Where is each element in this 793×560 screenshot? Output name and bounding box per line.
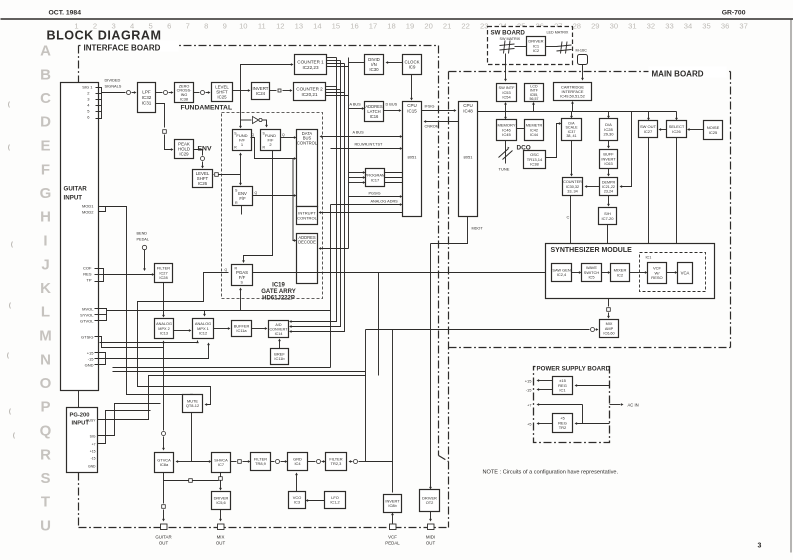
block PEAK HOLD IC29 [175,140,194,159]
wire counter2 bus stubs [326,86,337,88]
wire mix input long [366,329,590,331]
wire LPF branch to peak hold [156,104,165,128]
svg-text:MAIN BOARD: MAIN BOARD [652,70,704,79]
svg-text:P: P [40,399,50,416]
svg-text:ANALOG: ANALOG [156,322,172,326]
block ADDRES LATCH IC16 [365,102,384,122]
svg-text:38, 41: 38, 41 [566,134,576,138]
wire MOD to MUTE top [95,207,192,395]
wire driver to mix out [220,510,222,520]
wire sw matrix to sw intf [505,54,507,80]
svg-text:32: 32 [647,22,655,31]
bus line 1 [291,58,337,322]
wire +15 out [539,380,553,382]
svg-text:QT8-12: QT8-12 [186,403,199,408]
wire bref to a/d [279,341,281,349]
svg-text:O: O [40,375,52,392]
svg-text:DIVIDED: DIVIDED [105,78,121,83]
bus line 2 [291,61,341,327]
block LPF IC32 IC31 [138,83,156,113]
wire level shift ic26 output [213,174,214,176]
block VCF W/ RESO [648,263,667,284]
wire IFSIG cpu15 to cpu48 [422,110,455,112]
label MAIN BOARD [649,67,727,78]
svg-text:F: F [41,161,50,178]
svg-text:DEMPR: DEMPR [602,180,616,184]
wire gtsig to analog row [95,337,164,348]
svg-text:IC54: IC54 [502,95,511,100]
main board border [449,71,731,73]
wire vco to grd [296,475,298,492]
svg-text:R: R [235,201,238,205]
tune trimmer symbol [505,141,507,164]
block LEVEL SHFT IC26 [193,170,213,188]
svg-text:A/D: A/D [275,323,281,327]
svg-text:K: K [40,280,51,297]
wire analog adrs [331,204,401,206]
block FUND F/F 2 [261,130,281,151]
svg-text:IC6,60: IC6,60 [603,331,614,335]
svg-text:IC25: IC25 [217,95,227,100]
wire LPF to zero crossing [156,92,163,94]
block DRIVER IC5,6 [212,492,231,510]
wire program to cpu [385,172,403,174]
block DRIVER IC1 IC2 [527,37,546,56]
wire to gtvca [178,461,192,463]
svg-text:GND: GND [85,363,94,368]
svg-text:18: 18 [387,22,395,31]
connector guitar out [161,524,168,530]
svg-text:IC44: IC44 [530,133,538,137]
block GTVCA IC8a [155,453,174,473]
svg-text:AMP: AMP [605,327,614,331]
wire pgas q to mute [138,273,229,405]
svg-text:IC26: IC26 [672,129,681,134]
svg-text:17: 17 [369,22,377,31]
block LFO IC1,2 [325,492,346,509]
svg-text:3: 3 [111,22,115,31]
wire mid C [113,367,331,369]
svg-text:MIX: MIX [217,535,225,540]
svg-text:VCF: VCF [388,535,397,540]
svg-text:IC42: IC42 [530,128,538,132]
svg-text:COF: COF [83,266,92,271]
svg-text:IC11b: IC11b [274,356,285,361]
wire to inverter [241,119,252,121]
svg-text:IC21,22: IC21,22 [602,185,615,189]
wire to fund ff1 reset [240,155,242,175]
wire mvol bracket [95,309,107,321]
IC1 dashed box [640,253,706,292]
wire buff invert to dempr [608,169,610,175]
wire latch to cpu d bus [384,110,400,112]
wire mpx1 to buffer [214,328,229,330]
block MEMETR IC42 IC44 [525,120,544,141]
svg-text:OUT: OUT [216,541,226,546]
svg-text:21: 21 [443,22,451,31]
svg-text:TR2,3: TR2,3 [331,461,342,466]
sw matrix symbol [504,41,506,54]
svg-text:+7: +7 [527,404,531,408]
svg-text:A: A [40,43,51,60]
svg-text:6: 6 [167,22,171,31]
svg-text:R: R [40,446,51,463]
svg-text:COUNTER 1: COUNTER 1 [297,59,324,64]
svg-text:COUNTER 2: COUNTER 2 [296,86,323,91]
wire pgas set from analog row [240,290,242,311]
svg-text:HD61J222P: HD61J222P [262,296,295,302]
svg-text:IC38: IC38 [530,162,539,167]
wire down to gtvca [163,348,165,431]
wire +5 out [539,423,553,425]
block CPU IC48 [459,102,478,217]
svg-text:IC12: IC12 [199,331,207,336]
wire noise to select [689,129,704,131]
block FUND F/F 1 [233,130,252,151]
block +/-15 REG IC1 [553,377,573,395]
svg-text:IC30,32: IC30,32 [566,185,579,189]
svg-text:1: 1 [74,22,78,31]
wire select to vca [677,138,685,259]
block CLOCK IC9 [403,55,422,75]
interface board top border [79,45,439,47]
block VCO IC3 [289,492,306,509]
svg-text:5: 5 [148,22,152,31]
block SAW GEN IC2,4 [552,264,572,282]
svg-text:IC20,21: IC20,21 [301,92,317,97]
svg-text:MOD1: MOD1 [82,204,94,209]
svg-text:15: 15 [332,22,340,31]
svg-text:OUT: OUT [159,541,169,546]
wire driver to led matrix [546,46,557,48]
svg-text:+7: +7 [92,443,96,447]
wire +15 gnd bracket [95,353,106,365]
wire da to buff invert [608,141,610,147]
svg-text:CNROM: CNROM [425,125,439,129]
wire driver ot2 to midi out [430,512,432,520]
svg-text:+15: +15 [87,351,95,356]
block ADDRES DECODE [297,234,318,284]
wire interrupt control to cpu [320,212,403,214]
svg-text:IC49,50,51,52: IC49,50,51,52 [560,93,585,98]
svg-text:7: 7 [186,22,190,31]
svg-text:OT2: OT2 [426,500,434,505]
svg-text:RD,WR,INT,TST: RD,WR,INT,TST [355,143,384,147]
wire gtvca to guitar out [163,473,165,504]
svg-text:13: 13 [295,22,303,31]
svg-text:C: C [567,215,570,220]
svg-text:IC8b: IC8b [388,503,397,508]
svg-text:TR8,9: TR8,9 [255,461,266,466]
bus arrows up to interfaces [505,104,507,112]
svg-text:MOD2: MOD2 [82,210,94,215]
svg-text:SIGNALS: SIGNALS [105,84,122,89]
wire rd wr int tst [331,148,401,150]
block COUNTER 2 IC20,21 [294,83,326,101]
block LEVEL SHFT IC25 [212,83,233,102]
wire -15 row [95,345,209,359]
wire +7 out [539,404,583,406]
wire sw out to vcf [649,138,657,259]
synthesizer module box [546,244,715,299]
wire guitar box to pg200 [78,391,80,408]
svg-text:B: B [40,66,51,83]
svg-text:29,30: 29,30 [603,132,614,137]
block FILTER TR8,9 [251,453,271,471]
interface board right border [438,46,440,456]
block SW OUT IC27 [639,121,658,138]
svg-text:IC26: IC26 [198,181,208,186]
wire invert to pedal line [366,461,393,463]
bend pedal connector [142,245,146,249]
wire shvca to filter tr8,9 [231,461,237,463]
block MEMORY IC46 IC45 [497,120,517,141]
wire clock to cpu ic15 [411,75,413,99]
svg-text:DECODE: DECODE [298,240,316,245]
block SW INTF IC53 IC54 [497,84,517,102]
svg-text:PEDAL: PEDAL [137,238,149,242]
wire CNROM cpu48 to cpu15 [426,121,459,123]
svg-text:VCA: VCA [681,271,690,276]
svg-text:MVOL: MVOL [82,307,94,312]
wire bus to dempr [622,112,632,187]
svg-text:F/F: F/F [239,275,246,280]
svg-text:OCT. 1984: OCT. 1984 [49,10,82,17]
svg-text:F/F: F/F [239,196,246,201]
svg-text:D: D [40,114,51,131]
wire MOD2 bracket [95,207,106,212]
svg-text:PGSIG: PGSIG [369,192,381,196]
svg-text:M: M [39,328,52,345]
svg-text:IC2: IC2 [617,272,624,277]
wire dempr to counter [587,186,600,188]
wire mdot to midi driver [431,217,468,244]
wire divided signals to LPF [102,92,126,94]
svg-text:C: C [40,90,51,107]
svg-text:G: G [40,185,52,202]
svg-text:IC4: IC4 [294,461,301,466]
svg-text:+15: +15 [525,379,533,384]
wire grd to filter tr2,3 [308,461,316,463]
svg-text:ANALOG ADRS: ANALOG ADRS [371,200,399,204]
svg-text:2: 2 [93,22,97,31]
svg-text:IC1,2: IC1,2 [330,500,339,505]
wire to mpx2 bottom [163,343,165,348]
svg-text:SW MATRIX: SW MATRIX [500,37,521,41]
svg-text:AC IN: AC IN [628,403,639,408]
interface board left border lower [78,473,80,528]
wire counter to synth [570,196,572,260]
wire to env ff set [240,175,242,184]
wire osc to d/a scale [546,124,560,158]
svg-text:22: 22 [461,22,469,31]
svg-text:4: 4 [130,22,134,31]
svg-text:-15: -15 [91,457,96,461]
svg-text:IC28: IC28 [159,275,167,280]
block NOISE IC25 [704,121,723,140]
svg-text:INTERFACE BOARD: INTERFACE BOARD [84,44,161,53]
svg-text:CONTROL: CONTROL [297,140,318,145]
wire saw to wave [572,272,580,274]
svg-text:RESO: RESO [651,275,662,280]
svg-text:19: 19 [406,22,414,31]
wire synth to mix amp [608,299,610,307]
wire filter down to analog mpx2 [163,283,165,316]
svg-text:BEND: BEND [137,232,148,236]
svg-text:Q: Q [40,423,52,440]
wire s/h to mixer [608,225,620,260]
svg-text:MPX 2: MPX 2 [158,327,169,331]
block ZERO CROSSING IC38 [175,83,194,103]
svg-text:ENV: ENV [198,146,212,153]
svg-text:D BUS: D BUS [386,103,398,107]
block A/D CONVERT IC14 [269,321,289,338]
block BUFFER IC11a [232,321,252,337]
wire lfo to vco [308,500,325,502]
block GRD IC4 [288,453,308,471]
svg-text:SW BOARD: SW BOARD [491,30,526,37]
block PROGRAM IC17 [366,169,385,187]
svg-text:IFSIG: IFSIG [425,105,435,109]
svg-text:IC14: IC14 [275,332,283,336]
svg-text:IC15: IC15 [407,108,417,113]
svg-text:33: 33 [665,22,673,31]
svg-text:Q: Q [255,191,258,195]
interface board right border jog [439,456,449,462]
wire sw matrix to driver [515,46,527,48]
block CARTRIDGE INTERFACE [554,83,592,101]
svg-text:A BUS: A BUS [353,131,365,135]
svg-text:IC2,4: IC2,4 [557,272,567,277]
block DIVID I/N IC30 [365,55,384,75]
wire bus to divid [349,62,365,64]
svg-text:MIX: MIX [606,322,613,326]
wire a bus row [322,136,401,138]
bus line 3 [291,64,345,332]
wire vertical to addres decode [293,159,295,241]
block D/A SCALE IC37 38,41 [562,119,582,141]
power supply board border [534,367,610,443]
block COUNTER IC30,32 33,34 [563,178,583,196]
block ANALOG MPX 2 IC13 [155,319,174,339]
wire SIG bracket [96,88,102,119]
svg-text:IC45: IC45 [502,132,511,137]
svg-text:TP: TP [86,278,91,283]
wire ff1 q down to data bus control [251,138,295,159]
svg-text:LPF: LPF [142,90,151,95]
wire buffer to a/d [252,328,266,330]
block WAVE SWITCH IC5 [582,264,602,282]
block DATA BUS CONTROL [297,130,318,207]
svg-text:R: R [235,267,238,271]
svg-text:N: N [40,351,51,368]
wire cof bracket to filter [95,269,104,282]
svg-text:POWER SUPPLY BOARD: POWER SUPPLY BOARD [537,366,611,373]
bus arrows down [505,112,507,118]
wire vcf pedal to invert [392,515,394,524]
svg-text:IC1: IC1 [559,388,566,393]
svg-text:36: 36 [721,22,729,31]
svg-text:S: S [40,470,50,487]
page scan right edge [790,20,792,553]
block LCD INTF IC55 56 57 [525,84,544,102]
block DRIVER OT2 [420,490,440,512]
svg-text:LED MATRIX: LED MATRIX [547,31,569,35]
svg-text:IC29: IC29 [179,152,189,157]
svg-text:+5: +5 [527,423,531,427]
svg-text:H: H [40,209,51,226]
svg-text:Q: Q [225,268,228,272]
svg-text:IC11a: IC11a [236,328,247,333]
svg-text:IC5: IC5 [588,275,595,280]
svg-text:IC1: IC1 [646,256,652,260]
column numbers 1-37 [74,22,747,31]
svg-text:35: 35 [702,22,710,31]
svg-text:IC48: IC48 [463,108,473,113]
wire -15 out [539,389,553,391]
svg-text:IC7: IC7 [218,462,224,467]
block FILTER TR2,3 [326,453,347,471]
svg-text:GR-700: GR-700 [722,10,746,17]
svg-text:E: E [40,138,50,155]
block MIX AMP IC6,60 [600,320,619,338]
svg-text:SIG 1: SIG 1 [82,85,93,90]
wire env reset stub [241,206,243,215]
wire addres decode stub [320,248,349,250]
wire pg +7 [98,411,151,444]
wire midi in to driver ot2 [430,244,432,488]
wire m16c to cartridge [582,65,584,79]
svg-text:IC63: IC63 [604,161,612,166]
wire a bus to latch [349,108,363,110]
wire level shift to invert [233,90,249,92]
bus line 4 [348,58,350,249]
svg-text:IC19: IC19 [272,283,285,289]
svg-text:GND: GND [88,465,96,469]
block INTRUPT CONTROL [297,207,318,225]
wire bus to program stubs [349,172,364,174]
svg-text:16: 16 [350,22,358,31]
top rule [1,18,793,20]
svg-text:TUNE: TUNE [499,167,510,172]
svg-text:IC3: IC3 [294,500,300,505]
svg-text:IC16: IC16 [370,114,379,119]
wire analog adrs down to mpx row [330,205,332,311]
wire to mpx1 top [204,311,206,315]
block SHVCA IC7 [212,453,231,473]
svg-text:IC13: IC13 [160,331,168,335]
wire bend pedal to cof line [144,250,146,269]
svg-text:3: 3 [758,543,762,550]
svg-text:20: 20 [424,22,432,31]
svg-text:IC5,6: IC5,6 [216,500,225,505]
connector block GUITAR INPUT [61,83,99,391]
wire analog bus A [100,342,198,344]
svg-text:8051: 8051 [464,155,474,160]
svg-text:Q: Q [282,133,285,137]
wire mpx2 to mpx1 [174,330,190,332]
svg-text:L: L [41,304,50,321]
svg-text:MDOT: MDOT [472,227,484,231]
svg-text:IC9: IC9 [409,65,416,70]
block MIXER IC2 [611,264,630,282]
svg-text:11: 11 [258,22,266,31]
block VCA [678,263,693,284]
label POWER SUPPLY BOARD [536,362,608,372]
led matrix symbol [561,42,563,54]
svg-text:14: 14 [313,22,321,31]
svg-text:U: U [40,518,51,535]
